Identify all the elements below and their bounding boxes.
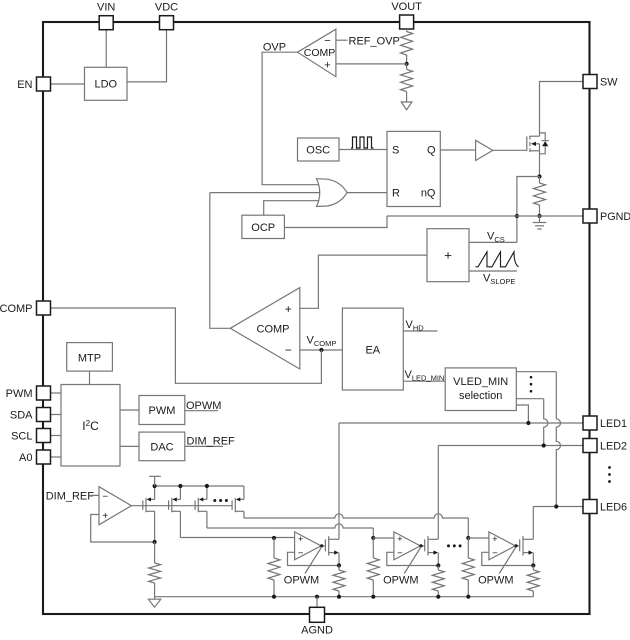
svg-text:PGND: PGND <box>600 211 630 223</box>
pin PWM <box>6 386 51 400</box>
wire cell3 feedback <box>482 552 534 565</box>
svg-text:SDA: SDA <box>10 409 33 421</box>
wire buffer to power FET gate <box>493 149 527 151</box>
label OPWM cell3 with leader <box>478 547 516 587</box>
wire EN pin to LDO <box>51 83 85 85</box>
pin VOUT <box>391 1 422 29</box>
node divider tap <box>405 62 409 66</box>
svg-text:R: R <box>392 188 400 200</box>
node rail at cell2 sense R <box>436 595 440 599</box>
wire OR gate output to R input <box>347 192 387 194</box>
svg-text:LDO: LDO <box>94 79 117 91</box>
body diode of power NMOS <box>540 133 549 154</box>
svg-text:selection: selection <box>459 390 502 402</box>
summing block <box>427 229 469 282</box>
clock waveform symbol <box>351 137 374 148</box>
svg-text:COMP: COMP <box>257 323 290 335</box>
svg-text:SW: SW <box>600 76 618 88</box>
pin SCL <box>11 429 50 443</box>
node LED1/selection junction <box>526 421 530 425</box>
pin LED1 <box>583 416 627 430</box>
svg-text:VOUT: VOUT <box>391 1 422 13</box>
wire A0 pin to I2C <box>51 456 62 458</box>
node sense resistor bottom <box>537 214 541 218</box>
wire PWM pin to I2C <box>51 392 62 394</box>
wire bus M4 to cell3 <box>244 514 468 538</box>
wire summing output to PWM comparator + <box>300 255 427 308</box>
node VCOMP <box>319 348 323 352</box>
label REF_OVP with stub <box>336 36 400 48</box>
resistor mirror reference R <box>149 542 161 597</box>
block I2C <box>61 385 120 467</box>
svg-text:−: − <box>285 343 292 357</box>
svg-text:−: − <box>102 491 108 502</box>
wire OCP input from current sense <box>284 216 387 228</box>
wire gate bus from amp output <box>131 505 232 507</box>
svg-text:REF_OVP: REF_OVP <box>349 36 400 48</box>
svg-text:nQ: nQ <box>421 188 436 200</box>
block VLED_MIN selection <box>445 368 516 411</box>
node AGND tap <box>315 595 319 599</box>
wire/label DIM_REF output <box>185 436 235 448</box>
dots ellipsis between cell2 and cell3 <box>447 544 462 547</box>
svg-text:PWM: PWM <box>149 405 176 417</box>
wire VCS into summing block <box>469 241 517 243</box>
wire VIN pin to LDO <box>105 30 107 67</box>
node cell2 reference <box>371 536 375 540</box>
svg-text:−: − <box>298 548 304 559</box>
resistor cell1 reference R <box>268 538 280 597</box>
transistor mirror M4 <box>232 486 244 518</box>
wire AGND tap to pin <box>316 597 318 608</box>
wire cell3 gate <box>514 544 519 547</box>
op-amp DIM_REF buffer <box>99 487 131 525</box>
wire COMP pin net <box>51 308 322 383</box>
wire COMP - input / VCOMP from EA <box>300 349 343 351</box>
block MTP <box>67 343 113 372</box>
wire I2C to PWM block <box>120 409 139 411</box>
transistor cell3 NMOS <box>520 536 534 565</box>
ground (signal) below sense resistor <box>533 216 547 229</box>
wire I2C to DAC block <box>120 445 139 447</box>
resistor cell3 sense R <box>527 566 539 597</box>
svg-text:OPWM: OPWM <box>186 400 221 412</box>
node cell1 reference <box>272 536 276 540</box>
node rail at cell1 sense R <box>337 595 341 599</box>
node cell2 source <box>436 563 440 567</box>
resistor divider upper R <box>401 29 413 64</box>
wire cell3 drain to LED net <box>532 507 534 540</box>
wire drain to SW pin <box>540 82 584 137</box>
svg-text:OPWM: OPWM <box>284 575 319 587</box>
op-amp cell3 <box>489 532 515 560</box>
pin AGND <box>301 607 333 636</box>
wire analog ground rail <box>155 596 534 598</box>
node FET source <box>537 174 541 178</box>
pin A0 <box>19 450 50 464</box>
or-gate U2 (3-input) <box>317 179 348 207</box>
dots ellipsis between mirror FETs <box>213 499 228 502</box>
resistor cell2 sense R <box>432 566 444 597</box>
svg-text:EN: EN <box>17 79 32 91</box>
ground (open arrow) at bottom rail <box>148 597 160 608</box>
wire OVP output to OR gate <box>262 52 319 185</box>
svg-text:DIM_REF: DIM_REF <box>46 490 95 502</box>
wire cell1 drain to LED net <box>338 423 340 539</box>
svg-text:+: + <box>324 60 330 72</box>
wire cell3 + input <box>468 537 489 539</box>
svg-text:+: + <box>444 248 452 263</box>
resistor current sense <box>534 177 546 217</box>
label OPWM cell2 with leader <box>383 547 421 587</box>
wire cell2 drain to LED net <box>437 446 439 540</box>
svg-text:COMP: COMP <box>304 47 336 59</box>
svg-text:DIM_REF: DIM_REF <box>187 436 236 448</box>
svg-text:−: − <box>397 548 403 559</box>
wire cell2 + input <box>373 537 394 539</box>
svg-text:LED2: LED2 <box>600 440 627 452</box>
svg-text:DAC: DAC <box>150 442 173 454</box>
label VSLOPE <box>483 273 515 287</box>
wire OSC to S input <box>339 149 387 151</box>
svg-text:MTP: MTP <box>78 353 101 365</box>
svg-text:AGND: AGND <box>301 624 333 635</box>
node rail at cell1 ref R <box>272 595 276 599</box>
svg-text:COMP: COMP <box>0 303 33 315</box>
wire VLED_MIN to selection block <box>403 380 445 382</box>
transistor mirror M1 <box>143 486 155 542</box>
svg-text:VDC: VDC <box>155 2 178 14</box>
node rail M2 <box>178 484 182 488</box>
wire cell2 feedback <box>387 552 439 565</box>
node cell1 source <box>337 563 341 567</box>
label VLED_MIN <box>405 369 445 383</box>
node rail M1 <box>153 484 157 488</box>
wire bus M2 to cell1 <box>180 537 294 539</box>
pin SDA <box>10 408 51 422</box>
regulator LDO <box>85 67 128 100</box>
op-amp cell1 <box>295 532 321 560</box>
svg-text:VIN: VIN <box>97 2 115 14</box>
svg-text:I2C: I2C <box>82 419 99 433</box>
wire Q output to buffer <box>440 149 475 151</box>
pin LED2 <box>583 439 627 453</box>
node rail at cell3 ref R <box>466 595 470 599</box>
dots ellipsis between LED2 and LED6 <box>608 466 611 483</box>
node M1 source feedback <box>153 540 157 544</box>
resistor divider lower R <box>401 64 413 102</box>
resistor cell1 sense R <box>333 566 345 597</box>
node LED2/selection junction <box>542 443 546 447</box>
wire/label VHD output <box>403 319 437 333</box>
svg-text:PWM: PWM <box>6 388 33 400</box>
transistor mirror M3 <box>195 486 207 528</box>
svg-text:SCL: SCL <box>11 430 32 442</box>
svg-text:A0: A0 <box>19 452 32 464</box>
wire comparator output <box>210 193 231 329</box>
resistor cell3 reference R <box>462 538 474 597</box>
wire VDC pin to LDO <box>127 30 167 82</box>
wire OVP comparator + input from divider tap <box>336 63 407 65</box>
wire LED1 net <box>339 422 583 424</box>
pin COMP <box>0 301 51 315</box>
sawtooth VSLOPE waveform <box>476 252 519 267</box>
wire cell2 gate <box>419 544 424 547</box>
wire cell1 feedback <box>288 552 340 565</box>
svg-text:−: − <box>492 548 498 559</box>
node cell3 reference <box>466 536 470 540</box>
svg-text:−: − <box>324 35 330 47</box>
label VCS <box>487 231 505 245</box>
svg-text:OPWM: OPWM <box>383 575 418 587</box>
wire selection out3 to LED1 net <box>516 405 528 423</box>
wire MTP to I2C <box>89 371 91 384</box>
error amplifier EA <box>342 308 403 390</box>
oscillator OSC <box>298 138 340 161</box>
wire VSLOPE into summing block <box>469 270 517 272</box>
svg-text:LED6: LED6 <box>600 501 627 513</box>
wire SDA pin to I2C <box>51 414 62 416</box>
svg-text:OSC: OSC <box>306 145 330 157</box>
wire LED2 net <box>438 445 583 447</box>
svg-text:EA: EA <box>365 345 380 357</box>
node LED6/selection junction <box>554 504 558 508</box>
op-amp cell2 <box>394 532 420 560</box>
wire source node to VCS tap <box>517 177 540 243</box>
pin VDC <box>155 2 178 30</box>
svg-text:OCP: OCP <box>251 222 275 234</box>
svg-text:S: S <box>392 145 399 157</box>
node rail M3 <box>205 484 209 488</box>
buffer gate <box>476 140 493 160</box>
block PWM <box>139 396 185 425</box>
wire/label OPWM output <box>185 400 222 412</box>
label DIM_REF input <box>46 490 99 502</box>
node cell3 source <box>531 563 535 567</box>
dots ellipsis beside selection block <box>530 376 533 393</box>
node OVP net label <box>263 42 286 54</box>
pin EN <box>17 77 50 91</box>
wire PGND line <box>387 215 583 217</box>
resistor cell2 reference R <box>367 538 379 597</box>
pin LED6 <box>583 500 627 514</box>
wire selection out1 to LED6 net <box>516 372 560 507</box>
transistor power NMOS <box>527 136 540 177</box>
wire LED6 net <box>533 506 583 508</box>
wire OCP output to OR input <box>264 201 320 216</box>
wire comparator output to OR input <box>210 192 320 194</box>
ground (open arrow) below divider <box>401 102 412 110</box>
pin PGND <box>583 209 630 223</box>
transistor mirror M2 <box>169 486 181 538</box>
svg-text:+: + <box>397 534 403 545</box>
transistor cell2 NMOS <box>425 536 439 565</box>
block DAC <box>139 432 185 461</box>
svg-text:Q: Q <box>427 145 436 157</box>
wire feedback to + input <box>91 515 155 543</box>
wire cell1 gate <box>320 544 325 547</box>
wire mirror drain rail <box>155 485 244 487</box>
op-amp OVP comparator <box>298 29 336 76</box>
node VCS tap on PGND line <box>515 214 519 218</box>
label OPWM cell1 with leader <box>284 547 322 587</box>
wire SCL pin to I2C <box>51 435 62 437</box>
SR latch U1 <box>387 131 440 206</box>
svg-text:+: + <box>285 302 292 316</box>
svg-text:+: + <box>298 534 304 545</box>
svg-text:OPWM: OPWM <box>478 575 513 587</box>
svg-text:+: + <box>492 534 498 545</box>
block OCP <box>242 215 285 238</box>
supply tap symbol <box>149 476 161 486</box>
wire bus M3 to cell2 <box>207 524 373 538</box>
transistor cell1 NMOS <box>325 536 339 565</box>
wire selection out2 to LED2 net <box>516 399 548 446</box>
svg-text:LED1: LED1 <box>600 418 627 430</box>
pin VIN <box>97 2 115 30</box>
svg-text:VLED_MIN: VLED_MIN <box>453 376 508 388</box>
svg-text:+: + <box>102 511 108 522</box>
node rail at cell2 ref R <box>371 595 375 599</box>
op-amp COMP (PWM comparator) <box>230 288 299 369</box>
pin SW <box>583 75 618 89</box>
label VCOMP <box>307 335 337 349</box>
